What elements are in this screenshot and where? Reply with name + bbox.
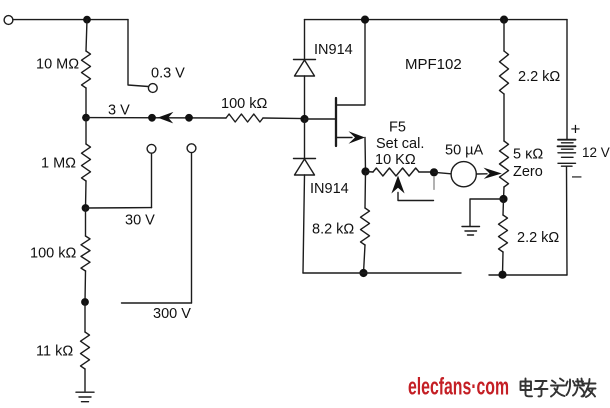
wire 30V vertical <box>151 153 153 207</box>
wire <box>304 119 306 159</box>
wire divider top <box>86 20 87 51</box>
svg-text:2.2 kΩ: 2.2 kΩ <box>517 230 559 246</box>
svg-text:30 V: 30 V <box>125 213 155 229</box>
svg-text:50 µA: 50 µA <box>445 143 484 159</box>
svg-text:IN914: IN914 <box>314 42 353 58</box>
label MPF102 <box>405 56 462 73</box>
right rail bottom <box>566 166 569 275</box>
ground (divider) <box>76 392 94 402</box>
svg-text:12 V: 12 V <box>582 145 610 160</box>
svg-text:5 κΩ: 5 κΩ <box>513 147 543 163</box>
svg-text:300 V: 300 V <box>153 306 191 322</box>
label 8.2 kΩ <box>312 222 354 238</box>
wire 300V horizontal <box>122 302 192 304</box>
ground (zero network) <box>462 227 480 236</box>
top rail <box>305 19 568 21</box>
wire to ground <box>470 199 504 226</box>
svg-text:10 KΩ: 10 KΩ <box>375 152 416 168</box>
node source/pot/8.2k <box>361 167 369 175</box>
transistor Q1 drain lead <box>336 20 365 105</box>
svg-text:11 kΩ: 11 kΩ <box>36 344 73 360</box>
svg-text:MPF102: MPF102 <box>405 56 462 73</box>
node 8.2k/bottom rail <box>359 269 367 277</box>
label 0.3 V <box>151 66 185 82</box>
label F5 <box>389 120 406 136</box>
svg-text:Set cal.: Set cal. <box>376 136 424 152</box>
node 30V junction <box>82 204 90 212</box>
label 1 MΩ <box>41 156 76 172</box>
wire <box>502 199 505 215</box>
node gate <box>300 115 308 123</box>
wire <box>434 172 451 174</box>
wire <box>85 118 87 144</box>
svg-text:+: + <box>571 120 581 139</box>
wire <box>304 76 306 119</box>
Chinese caption 电子发烧友 <box>521 379 596 398</box>
wire pot to meter <box>419 171 434 173</box>
0.3 V tap terminal <box>148 84 157 93</box>
battery B1 12 V <box>558 140 576 167</box>
node bottom rail right <box>498 271 506 279</box>
label IN914 (top) <box>314 42 353 58</box>
node pot/meter <box>430 168 438 176</box>
resistor 100 kΩ (divider) <box>81 236 90 271</box>
svg-text:100 kΩ: 100 kΩ <box>221 96 267 112</box>
svg-text:F5: F5 <box>389 120 406 136</box>
diode D2 IN914 <box>294 159 316 176</box>
svg-text:Zero: Zero <box>513 164 543 180</box>
resistor 11 kΩ <box>81 332 90 369</box>
wire to gate node <box>263 117 304 120</box>
node 3V <box>82 114 90 122</box>
switch contact node <box>185 114 193 122</box>
label 100 kΩ (divider) <box>30 246 76 262</box>
svg-text:2.2 kΩ: 2.2 kΩ <box>518 69 560 85</box>
wire mid column top <box>503 20 505 51</box>
node A (top of divider) <box>83 16 91 24</box>
resistor 10 MΩ <box>82 51 91 88</box>
wire <box>85 88 87 118</box>
label 2.2 kΩ (upper) <box>518 69 560 85</box>
potentiometer 10 KΩ wiper arrow <box>391 176 434 201</box>
wire 8.2k bottom <box>364 245 366 273</box>
potentiometer 5 kΩ zero <box>500 141 509 187</box>
label 30 V <box>125 213 155 229</box>
resistor 2.2 kΩ (lower) <box>499 215 508 252</box>
transistor Q1 MPF102 gate lead <box>305 118 337 120</box>
wire <box>503 187 506 199</box>
node top rail / 2.2k <box>500 16 508 24</box>
node drain/top rail <box>361 16 369 24</box>
label 3 V <box>108 103 130 119</box>
svg-text:8.2 kΩ: 8.2 kΩ <box>312 222 354 238</box>
wire top-left rail <box>13 19 128 21</box>
label 5 kΩ <box>513 147 543 163</box>
svg-text:0.3 V: 0.3 V <box>151 66 185 82</box>
wire 300V vertical <box>191 153 193 303</box>
node 300V junction <box>81 298 89 306</box>
svg-text:1 MΩ: 1 MΩ <box>41 156 76 172</box>
label 12 V <box>582 145 610 160</box>
wire <box>84 369 86 391</box>
input terminal <box>4 16 13 25</box>
elecfans.com logo <box>408 374 509 401</box>
transistor Q1 channel bar <box>335 98 337 146</box>
label + <box>571 120 581 139</box>
svg-text:10 MΩ: 10 MΩ <box>36 57 79 73</box>
svg-text:3 V: 3 V <box>108 103 130 119</box>
resistor 1 MΩ <box>82 144 91 181</box>
wire <box>503 94 505 141</box>
resistor 100 kΩ (series input) <box>226 114 263 122</box>
svg-text:–: – <box>572 166 582 185</box>
label 11 kΩ <box>36 344 73 360</box>
wire 3V line <box>86 117 226 119</box>
bottom rail right segment <box>489 274 567 276</box>
potentiometer 10 KΩ (set cal) <box>373 168 419 176</box>
wire <box>366 171 374 174</box>
wire to 0.3V tap <box>128 20 148 87</box>
wire <box>84 271 87 302</box>
300 V tap terminal <box>187 144 196 153</box>
right rail top <box>566 20 568 140</box>
meter arrow to 5k wiper <box>476 168 502 179</box>
svg-text:elecfans·com: elecfans·com <box>408 374 509 401</box>
label 300 V <box>153 306 191 322</box>
selector arrow (points left) <box>158 112 174 124</box>
diode D1 IN914 <box>294 60 316 77</box>
meter M1 50 µA <box>451 162 476 187</box>
wire <box>84 302 86 332</box>
resistor 2.2 kΩ (upper) <box>500 51 509 94</box>
wire D1 to top rail <box>304 20 306 60</box>
label Zero <box>513 164 543 180</box>
resistor 8.2 kΩ <box>361 208 370 245</box>
label 2.2 kΩ (lower) <box>517 230 559 246</box>
wire 30V horizontal <box>86 207 152 209</box>
label Set cal. <box>376 136 424 152</box>
label - <box>572 166 582 185</box>
svg-text:IN914: IN914 <box>310 181 349 197</box>
wire 8.2k top <box>364 172 367 209</box>
wire <box>85 181 88 208</box>
label 10 KΩ <box>375 152 416 168</box>
transistor Q1 source lead with arrow <box>336 131 366 171</box>
wire <box>502 252 505 275</box>
svg-text:100 kΩ: 100 kΩ <box>30 246 76 262</box>
label IN914 (bottom) <box>310 181 349 197</box>
node 5k/2.2k/ground <box>499 195 507 203</box>
switch contact node <box>148 114 156 122</box>
label 100 kΩ (series) <box>221 96 267 112</box>
label 50 µA <box>445 143 484 159</box>
bottom rail left segment <box>303 272 461 274</box>
wire <box>85 208 87 236</box>
30 V tap terminal <box>147 144 156 153</box>
label 10 MΩ <box>36 57 79 73</box>
wire D2 to bottom rail <box>303 175 305 273</box>
